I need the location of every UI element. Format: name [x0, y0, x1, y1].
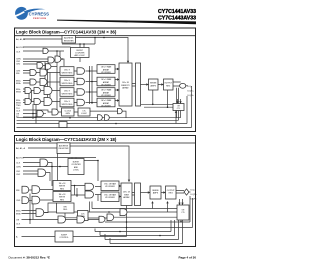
- wire register rows to gates: [74, 71, 97, 103]
- arrowhead: [127, 61, 129, 64]
- column mux box: [136, 63, 141, 106]
- wire CE3 WE: [23, 81, 60, 84]
- ram array w driver box row 1: [97, 65, 115, 74]
- wire LB to gates d2: [71, 186, 85, 198]
- arrowhead: [176, 101, 178, 103]
- row gate 1: [77, 68, 84, 75]
- svg-text:W DRIVER: W DRIVER: [105, 186, 115, 188]
- svg-text:BWb: BWb: [16, 213, 22, 215]
- junction: [61, 58, 63, 60]
- wire RB to array d2: [119, 186, 121, 197]
- ce2 gate a: [30, 79, 36, 85]
- write reg box 2 d2: [53, 192, 71, 202]
- bw1 gate c: [44, 87, 52, 95]
- ram array box 2 d2: [101, 192, 119, 202]
- clk gen box 1: [62, 108, 75, 116]
- wire sweep lines d2: [35, 222, 193, 244]
- memory array box: [119, 63, 132, 106]
- svg-text:BWa: BWa: [16, 210, 21, 212]
- svg-text:REGISTER: REGISTER: [59, 148, 69, 150]
- ce1 gate a: [30, 70, 36, 76]
- zz box d2: [55, 231, 73, 242]
- bottom gate 2 d2: [107, 214, 114, 221]
- zz small box: [59, 122, 67, 128]
- arrowhead: [146, 83, 148, 85]
- svg-text:WRITE REG: WRITE REG: [62, 104, 73, 106]
- svg-text:ARRAY: ARRAY: [103, 102, 110, 105]
- svg-text:DQPa: DQPa: [191, 194, 198, 196]
- arrowhead: [181, 203, 183, 205]
- title underline diagram 2: [15, 142, 196, 144]
- bw1 gate a: [25, 88, 31, 94]
- svg-text:1M x 9 RAM: 1M x 9 RAM: [101, 89, 112, 92]
- wire BW row 1: [23, 89, 60, 92]
- bottom buffer gate: [37, 110, 43, 116]
- cen gate d2: [38, 169, 46, 176]
- svg-text:CTL: CTL: [181, 212, 185, 214]
- wire address out d2: [70, 146, 129, 181]
- memory array label: [121, 82, 130, 90]
- wire ADV/LD d2: [23, 157, 96, 159]
- wire clkgen out: [88, 217, 107, 219]
- we gate a d2: [32, 186, 40, 194]
- we buffer a d2: [22, 186, 29, 193]
- arrowhead: [151, 201, 153, 203]
- wire outreg verticals: [177, 88, 179, 121]
- wire OE box top feeds: [141, 90, 181, 107]
- diagram 1 tiny labels: [16, 38, 194, 118]
- wire ADV/LD: [23, 46, 71, 48]
- arrowhead: [117, 89, 119, 91]
- write register box row 4: [60, 98, 74, 107]
- junction: [76, 194, 78, 196]
- wire bottom sweep lines: [17, 118, 192, 128]
- title underline diagram 1: [15, 35, 196, 37]
- oe chain gate b d2: [77, 216, 85, 223]
- wire addr to burst: [58, 154, 77, 181]
- svg-text:CLK: CLK: [16, 223, 21, 225]
- arrowhead: [179, 101, 181, 103]
- arrowhead: [119, 195, 121, 197]
- junction: [51, 166, 53, 168]
- svg-text:ADV/LD: ADV/LD: [16, 156, 24, 159]
- svg-text:COUNTER: COUNTER: [71, 164, 81, 166]
- svg-text:CYPRESS: CYPRESS: [29, 12, 50, 17]
- svg-text:CEN: CEN: [16, 166, 21, 168]
- svg-text:WRITE REG: WRITE REG: [62, 93, 73, 95]
- svg-text:REG: REG: [169, 193, 174, 195]
- gates diagram 2: [22, 159, 189, 223]
- svg-text:W DRIVER: W DRIVER: [101, 95, 111, 97]
- write register box row 3: [60, 88, 74, 97]
- svg-text:1M x 9 RAM: 1M x 9 RAM: [101, 78, 112, 81]
- svg-text:1M x 18 RAM: 1M x 18 RAM: [104, 194, 116, 197]
- gates diagram 1: [25, 48, 186, 127]
- clk gen box d2: [78, 211, 89, 221]
- wire bottom left labels: [17, 114, 179, 121]
- wire bw box to clkgen: [44, 212, 78, 218]
- wire CLK d2: [23, 163, 52, 187]
- address register box: [62, 36, 76, 44]
- svg-text:1M x 18 RAM: 1M x 18 RAM: [104, 183, 116, 186]
- arrowhead: [161, 83, 163, 85]
- wire bottom row 1: [23, 110, 126, 118]
- svg-text:1M x 36: 1M x 36: [122, 82, 129, 84]
- arrowhead: [166, 201, 168, 203]
- svg-text:W DRIVER: W DRIVER: [101, 105, 111, 107]
- svg-text:CEN: CEN: [16, 58, 21, 60]
- svg-text:WE: WE: [16, 73, 20, 75]
- junction: [103, 37, 105, 39]
- svg-text:OE: OE: [16, 219, 20, 221]
- wire outreg1 to outreg2: [161, 192, 166, 194]
- junction: [152, 104, 154, 106]
- svg-text:AND: AND: [74, 166, 79, 169]
- row gate 2: [77, 78, 85, 85]
- memory array box d2: [121, 183, 132, 206]
- wire sense to outreg: [158, 84, 164, 86]
- wire outreg to buffer: [173, 82, 181, 86]
- row gate 4: [77, 99, 84, 106]
- wire mux to sense amp: [141, 84, 149, 86]
- svg-text:TDI: TDI: [16, 108, 20, 110]
- arrowhead: [119, 185, 121, 187]
- arrowhead: [117, 68, 119, 70]
- junction dots diagram 1: [32, 37, 168, 125]
- junction: [59, 166, 61, 168]
- junction: [108, 211, 110, 213]
- svg-text:1M x 18: 1M x 18: [59, 194, 66, 196]
- bw1 gate b: [34, 88, 41, 94]
- arrowhead: [180, 220, 182, 223]
- output box 1 d2: [150, 186, 161, 199]
- junction: [32, 113, 34, 115]
- header tapered rule: [57, 20, 196, 25]
- wire WE row a: [22, 189, 54, 192]
- svg-text:Logic Block Diagram—CY7C1441AV: Logic Block Diagram—CY7C1441AV33 (1M × 3…: [16, 30, 117, 35]
- svg-text:BURST: BURST: [73, 162, 80, 164]
- svg-text:MEM: MEM: [124, 194, 129, 196]
- svg-text:WRITE: WRITE: [59, 197, 66, 199]
- svg-text:1M x 18: 1M x 18: [59, 183, 66, 185]
- junction: [29, 219, 31, 221]
- sense amps box: [149, 79, 159, 90]
- cypress logo: [15, 7, 49, 20]
- diagram 1 box texts: [62, 37, 181, 115]
- svg-text:AND LOGIC: AND LOGIC: [74, 54, 85, 57]
- arrowhead: [148, 191, 150, 193]
- junction: [83, 43, 85, 45]
- junction: [91, 102, 93, 104]
- svg-text:SLEEP: SLEEP: [61, 235, 68, 237]
- bw gate d2: [36, 209, 44, 217]
- we gate b d2: [32, 196, 40, 204]
- svg-text:MEMORY: MEMORY: [121, 85, 130, 87]
- wire OE row d2: [17, 220, 100, 228]
- svg-text:W DRIVER: W DRIVER: [101, 84, 111, 86]
- svg-text:REG: REG: [60, 188, 65, 190]
- junction: [89, 70, 91, 72]
- bottom gate 3 d2: [99, 216, 105, 222]
- junction: [119, 231, 121, 233]
- cen buffer gate: [55, 56, 61, 62]
- write register box row 2: [60, 77, 74, 86]
- output box 2 d2: [166, 186, 177, 199]
- svg-text:ADDRESS: ADDRESS: [64, 37, 74, 40]
- arrowhead: [178, 203, 180, 205]
- output diamond d2: [184, 189, 189, 195]
- address register box d2: [57, 143, 70, 154]
- svg-text:Page 4 of 30: Page 4 of 30: [178, 255, 196, 259]
- svg-text:CLK: CLK: [16, 111, 21, 113]
- memory array label d2: [123, 192, 130, 200]
- svg-text:OUTPUT: OUTPUT: [167, 190, 176, 192]
- svg-text:ARRAY: ARRAY: [103, 68, 110, 71]
- frame diagram 1: [15, 28, 196, 132]
- svg-text:WE: WE: [16, 190, 20, 192]
- OE control box d2: [177, 205, 189, 220]
- cen and gate: [48, 57, 54, 63]
- wire outreg verticals d2: [153, 199, 183, 212]
- wire BW row 2: [23, 100, 60, 103]
- junction: [89, 91, 91, 93]
- svg-text:LOGIC: LOGIC: [81, 113, 88, 115]
- svg-text:ADV/LD: ADV/LD: [16, 46, 24, 49]
- svg-text:BWd: BWd: [16, 91, 22, 93]
- write reg box 1 d2: [53, 181, 71, 191]
- svg-text:CLOCK: CLOCK: [64, 110, 71, 112]
- svg-text:REGISTER: REGISTER: [64, 41, 74, 43]
- svg-text:A0, A1, A: A0, A1, A: [16, 38, 26, 41]
- svg-text:ADDRESS: ADDRESS: [59, 145, 69, 148]
- wire outreg2 to diamond: [176, 191, 184, 194]
- bottom oval gate high: [118, 108, 123, 113]
- wire array to mux: [132, 84, 136, 87]
- junction: [35, 116, 37, 118]
- bottom d gate: [105, 115, 110, 121]
- wire clk vertical bus: [29, 58, 57, 124]
- junction: [126, 227, 128, 229]
- ce2 gate b: [40, 79, 47, 86]
- wire left verticals d2: [30, 194, 33, 225]
- diagram 2 tiny labels: [16, 147, 197, 238]
- wire mux to outreg1: [141, 192, 151, 194]
- wire reg to array arrows: [115, 69, 119, 101]
- svg-text:BWb: BWb: [16, 83, 22, 85]
- arrowhead: [128, 180, 130, 183]
- junction: [159, 235, 161, 237]
- svg-text:1M x 9: 1M x 9: [64, 101, 70, 103]
- frame diagram 2: [15, 136, 196, 247]
- svg-text:SENSE: SENSE: [152, 190, 159, 192]
- wire bottom line 2: [114, 216, 178, 218]
- clk buffer d2: [40, 159, 48, 167]
- ram array box 1 d2: [101, 181, 119, 191]
- svg-text:CLK: CLK: [16, 162, 21, 164]
- junction: [69, 117, 71, 119]
- wire A0 A1 A: [23, 38, 62, 40]
- svg-text:ARRAY: ARRAY: [123, 196, 130, 199]
- junction: [56, 50, 58, 52]
- svg-text:PERFORM: PERFORM: [33, 18, 46, 20]
- wire address out: [76, 38, 129, 62]
- svg-text:ARRAY: ARRAY: [122, 87, 129, 90]
- wire CLK: [23, 51, 64, 58]
- svg-text:1M x 9: 1M x 9: [64, 91, 70, 93]
- junction: [97, 160, 99, 162]
- junction: [115, 123, 117, 125]
- boxes diagram 1: [60, 36, 184, 117]
- svg-text:GEN: GEN: [81, 216, 86, 218]
- svg-text:1M x 9: 1M x 9: [64, 70, 70, 72]
- column mux box d2: [135, 183, 141, 206]
- svg-text:W DRIVER: W DRIVER: [101, 72, 111, 74]
- bw2 gate a: [25, 99, 31, 105]
- svg-text:GEN: GEN: [66, 113, 71, 115]
- wire gates to RB d2: [95, 187, 101, 202]
- svg-text:ARRAY: ARRAY: [103, 91, 110, 94]
- clk path buffer: [52, 109, 58, 115]
- svg-text:WRITE REG: WRITE REG: [62, 83, 73, 85]
- wire WE row b: [22, 199, 54, 201]
- arrowhead: [163, 191, 165, 193]
- svg-text:ARRAY: ARRAY: [103, 81, 110, 84]
- svg-text:W DRIVER: W DRIVER: [105, 197, 115, 199]
- svg-text:TMS: TMS: [16, 105, 21, 107]
- svg-text:REG: REG: [63, 209, 68, 211]
- stack gate a d2: [85, 183, 94, 190]
- diagram 2 box texts: [59, 145, 185, 240]
- wire vertical bus mid: [90, 66, 93, 104]
- svg-text:1M x 9: 1M x 9: [64, 80, 70, 82]
- svg-text:DQPb: DQPb: [191, 199, 198, 201]
- wire sweep verticals d2: [95, 196, 193, 244]
- ce gate: [37, 63, 43, 69]
- junction: [79, 43, 81, 45]
- ram array w driver box row 2: [97, 77, 115, 86]
- output register box: [164, 79, 174, 90]
- we buffer b d2: [22, 197, 29, 204]
- svg-text:AMPS: AMPS: [151, 84, 157, 87]
- burst counter box: [71, 48, 90, 58]
- arrowhead: [175, 110, 177, 113]
- wire CE row: [23, 64, 57, 67]
- row gate 3: [77, 89, 85, 96]
- svg-text:DQPa: DQPa: [188, 91, 195, 93]
- junction: [74, 185, 76, 187]
- svg-text:REG: REG: [166, 85, 171, 87]
- svg-text:LOGIC: LOGIC: [73, 170, 80, 172]
- svg-text:CTL: CTL: [82, 110, 86, 112]
- wire diamond to DQ: [189, 191, 191, 193]
- arrowhead: [117, 78, 119, 80]
- wire burst top feed: [62, 38, 95, 63]
- svg-text:CONTROL: CONTROL: [59, 237, 68, 239]
- svg-text:AMPS: AMPS: [153, 192, 159, 195]
- boxes diagram 2: [53, 143, 189, 242]
- junction dots diagram 2: [29, 160, 161, 237]
- bottom gate 1 d2: [120, 209, 127, 216]
- wire CEN rows: [23, 59, 64, 66]
- svg-text:1M x 9 RAM: 1M x 9 RAM: [101, 99, 112, 102]
- bw2 gate c: [44, 98, 52, 106]
- burst counter box d2: [68, 159, 84, 175]
- arrowheads diagram 2: [119, 180, 184, 223]
- wire array to mux d2: [132, 193, 135, 196]
- bottom small gate: [98, 115, 103, 121]
- ram array w driver box row 3: [97, 88, 115, 97]
- svg-text:1M x 9 RAM: 1M x 9 RAM: [101, 66, 112, 69]
- svg-text:CLK: CLK: [16, 51, 21, 53]
- svg-text:OE: OE: [16, 113, 20, 115]
- svg-text:BW: BW: [64, 207, 67, 209]
- svg-text:Logic Block Diagram—CY7C1443AV: Logic Block Diagram—CY7C1443AV33 (2M × 1…: [16, 137, 117, 142]
- junction: [126, 221, 128, 223]
- junction: [167, 106, 169, 108]
- svg-text:DQPb: DQPb: [188, 95, 195, 97]
- wire sweep verticals: [176, 86, 192, 128]
- wire buffer to DQ: [186, 85, 188, 87]
- svg-text:CY7C1443AV33: CY7C1443AV33: [158, 15, 196, 21]
- svg-text:SENSE: SENSE: [150, 83, 157, 85]
- svg-text:BWd: BWd: [16, 102, 22, 104]
- svg-text:2M x 18: 2M x 18: [123, 192, 130, 194]
- stack gate b d2: [85, 191, 94, 198]
- svg-text:Document #: 38-05212 Rev. *E: Document #: 38-05212 Rev. *E: [9, 255, 50, 259]
- write register box row 1: [60, 67, 74, 76]
- wire BW row d2: [22, 203, 57, 214]
- clk buffer gate: [43, 48, 48, 53]
- arrowhead: [117, 99, 119, 101]
- junction: [91, 81, 93, 83]
- svg-text:CTL: CTL: [177, 108, 181, 110]
- wire ZZ row d2: [22, 206, 127, 237]
- ce gate b: [46, 64, 51, 69]
- wire CEN d2: [23, 166, 68, 168]
- bw reg box d2: [57, 203, 75, 213]
- svg-text:A0, A1, A: A0, A1, A: [16, 147, 26, 150]
- svg-text:REG: REG: [60, 199, 65, 201]
- ce1 gate b: [40, 69, 47, 76]
- svg-text:WRITE REG: WRITE REG: [62, 72, 73, 74]
- wire burst out: [84, 161, 98, 182]
- ram array w driver box row 4: [97, 98, 115, 107]
- OE control box: [173, 104, 184, 111]
- arrowheads diagram 1: [117, 61, 182, 113]
- clk gen box 2: [78, 108, 90, 116]
- bw2 gate b: [34, 99, 41, 105]
- svg-text:CY7C1441AV33: CY7C1441AV33: [158, 9, 196, 15]
- wire bottom line 1: [48, 202, 177, 213]
- svg-text:WRITE: WRITE: [59, 186, 66, 188]
- oe chain gate a d2: [58, 216, 66, 223]
- junction: [94, 37, 96, 39]
- svg-text:OUTPUT: OUTPUT: [164, 83, 173, 85]
- wire CE rows d2: [23, 171, 50, 181]
- wire A0 A1 A d2: [28, 147, 57, 149]
- output buffer oval: [180, 83, 186, 88]
- wire CE1 CE2: [23, 71, 60, 74]
